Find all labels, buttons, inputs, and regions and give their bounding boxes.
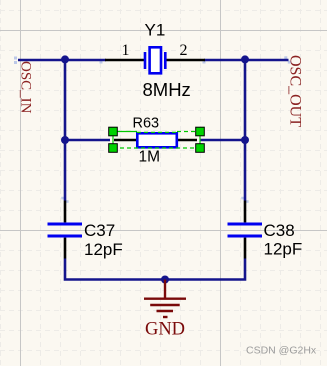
wire: left vertical below C37 (65, 259, 165, 280)
svg-text:R63: R63 (133, 116, 160, 132)
svg-text:GND: GND (145, 320, 185, 340)
pin 2 (244, 238, 247, 259)
svg-text:OSC_OUT: OSC_OUT (287, 55, 304, 127)
svg-text:C38: C38 (264, 221, 295, 240)
pin 1 (114, 139, 137, 142)
pin 1 (64, 201, 67, 223)
bottom plate (228, 234, 263, 237)
ground (144, 280, 186, 318)
junction GND (161, 276, 169, 284)
svg-text:12pF: 12pF (264, 240, 303, 259)
pin 2 (64, 238, 67, 259)
bottom plate (48, 234, 83, 237)
pin 1 (244, 201, 247, 223)
svg-text:1M: 1M (139, 149, 161, 166)
junction at OSC_OUT column (241, 55, 249, 63)
resistor R63 (114, 133, 197, 147)
wire: top net OSC_IN to pin1 (18, 59, 106, 62)
wire: right vertical below C38 (165, 259, 245, 280)
capacitor C38 (228, 201, 263, 259)
wire: right vertical (244, 59, 247, 201)
right plate (164, 52, 167, 69)
selection box R63 (113, 132, 200, 149)
pin 2 (166, 59, 205, 62)
net label anchor marks (14, 56, 291, 203)
selection handles R63 (109, 127, 205, 152)
top plate (228, 222, 263, 225)
svg-text:2: 2 (180, 42, 188, 59)
body (137, 133, 177, 147)
svg-text:1: 1 (122, 42, 130, 59)
wire: pin2 to OSC_OUT (204, 59, 289, 62)
left plate (144, 52, 147, 69)
pin 2 (177, 139, 197, 142)
capacitor C37 (48, 201, 83, 259)
svg-text:C37: C37 (84, 221, 115, 240)
junction at OSC_IN column (61, 55, 69, 63)
svg-text:Y1: Y1 (145, 21, 166, 40)
pin 1 (105, 59, 144, 62)
svg-text:CSDN @G2Hx: CSDN @G2Hx (246, 345, 317, 357)
svg-text:8MHz: 8MHz (143, 79, 191, 100)
top plate (48, 222, 83, 225)
svg-text:OSC_IN: OSC_IN (17, 61, 33, 114)
wire: R63 row left (65, 139, 110, 142)
wire: R63 row right (200, 139, 245, 142)
svg-text:12pF: 12pF (84, 240, 123, 259)
wire: left vertical (64, 59, 67, 201)
junction R63 right (241, 136, 249, 144)
crystal Y1 (105, 47, 205, 73)
junction R63 left (61, 136, 69, 144)
body (150, 47, 161, 73)
